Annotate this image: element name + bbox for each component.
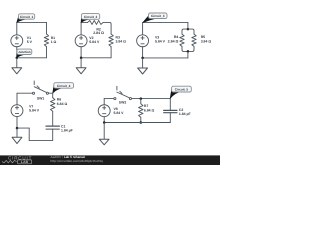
svg-text:1.84 µF: 1.84 µF <box>179 112 191 116</box>
wire bottom bar <box>182 46 194 51</box>
label R4 value <box>168 35 179 43</box>
label Circuit_2 <box>81 14 100 23</box>
svg-text:SW1: SW1 <box>37 97 45 101</box>
svg-text:Circuit_4: Circuit_4 <box>57 84 71 88</box>
voltage source V2 5.84 V <box>75 35 87 47</box>
wire <box>46 22 48 34</box>
ground <box>12 58 22 74</box>
wire <box>143 57 188 59</box>
capacitor C2 <box>164 110 177 112</box>
svg-text:Circuit_5: Circuit_5 <box>175 88 189 92</box>
ground <box>138 58 148 74</box>
svg-text:Circuit_3: Circuit_3 <box>151 14 165 18</box>
label Circuit_4 <box>53 83 74 93</box>
svg-text:5.84 V: 5.84 V <box>114 111 125 115</box>
voltage source V7 5.84 V <box>11 105 23 117</box>
wire <box>187 22 189 29</box>
svg-text:5.84 V: 5.84 V <box>29 108 40 112</box>
wire <box>17 21 47 23</box>
wire <box>81 21 88 23</box>
wire <box>169 99 171 111</box>
svg-text:LAB: LAB <box>21 160 29 164</box>
svg-text:R7: R7 <box>144 104 148 108</box>
ground <box>99 123 109 145</box>
wire <box>52 93 54 98</box>
svg-text:R6: R6 <box>57 98 61 102</box>
wire <box>140 99 142 104</box>
wire <box>104 98 114 100</box>
label R5 value <box>201 35 212 43</box>
node junction dot <box>187 50 190 53</box>
svg-text:Circuit_1: Circuit_1 <box>20 15 34 19</box>
label Junction <box>17 49 32 57</box>
label SW1 <box>37 97 45 101</box>
label V7 value <box>29 105 40 113</box>
resistor R6 <box>51 98 55 112</box>
node junction dot <box>80 57 83 60</box>
label R2 value <box>93 28 104 36</box>
label Circuit_1 <box>17 14 35 22</box>
switch SW1 <box>32 81 48 94</box>
svg-text:6.84 Ω: 6.84 Ω <box>57 102 68 106</box>
svg-text:5.84 V: 5.84 V <box>89 40 100 44</box>
ground <box>76 58 86 74</box>
wire <box>46 47 48 58</box>
resistor R5 <box>192 34 196 46</box>
wire <box>140 117 142 122</box>
wire <box>187 51 189 58</box>
wire <box>104 122 170 124</box>
node junction dot <box>103 121 106 124</box>
node junction dot <box>141 57 144 60</box>
wire <box>142 47 144 58</box>
node junction dot <box>187 28 190 31</box>
svg-text:3.84 Ω: 3.84 Ω <box>201 40 212 44</box>
wire <box>16 117 18 129</box>
wire <box>28 128 30 140</box>
resistor R3 <box>109 34 113 47</box>
label C2 value <box>179 108 191 116</box>
label V3 value <box>155 35 166 43</box>
label R3 value <box>116 35 127 43</box>
label V8 value <box>114 107 125 115</box>
wire <box>103 22 111 34</box>
svg-text:1 Ω: 1 Ω <box>51 40 57 44</box>
voltage source V3 5.84 V <box>137 35 149 47</box>
svg-text:5 V: 5 V <box>27 40 33 44</box>
ground <box>12 128 22 144</box>
node junction dot <box>16 127 19 130</box>
label Circuit_3 <box>143 13 167 23</box>
wire top bar <box>182 29 194 34</box>
wire <box>80 47 82 58</box>
switch SW2 <box>114 86 132 99</box>
wire <box>29 139 53 141</box>
label V2 value <box>89 36 100 44</box>
svg-text:Circuit_2: Circuit_2 <box>84 15 98 19</box>
wire <box>16 22 18 34</box>
node junction dot <box>140 121 143 124</box>
wire <box>169 113 171 123</box>
wire <box>81 57 111 59</box>
label Circuit_5 <box>170 86 191 98</box>
node junction dot <box>140 97 143 100</box>
wire <box>16 93 18 104</box>
wire <box>110 47 112 58</box>
wire <box>16 47 18 58</box>
svg-text:R5: R5 <box>201 35 205 39</box>
footer text <box>50 155 103 163</box>
label V1 value <box>27 36 33 44</box>
wire <box>131 98 170 100</box>
wire <box>48 92 52 94</box>
wire <box>103 99 105 105</box>
wire <box>103 117 105 123</box>
svg-text:6.84 Ω: 6.84 Ω <box>144 108 155 112</box>
CircuitLab logo <box>2 155 32 164</box>
wire <box>17 127 29 129</box>
wire <box>17 57 47 59</box>
wire <box>142 22 144 34</box>
svg-text:5.84 V: 5.84 V <box>155 40 166 44</box>
capacitor C1 <box>46 126 59 129</box>
voltage source V1 5 V <box>11 35 23 47</box>
label R7 value <box>144 104 155 112</box>
resistor R7 <box>139 104 143 118</box>
wire <box>52 111 54 126</box>
wire <box>80 22 82 34</box>
wire <box>17 92 32 94</box>
svg-text:2.84 Ω: 2.84 Ω <box>168 40 179 44</box>
resistor R2 <box>88 20 104 24</box>
label R6 value <box>57 98 68 107</box>
wire <box>52 129 54 140</box>
svg-text:2.84 Ω: 2.84 Ω <box>93 31 104 35</box>
wire <box>143 21 188 23</box>
svg-text:Junction: Junction <box>18 50 31 54</box>
resistor R4 <box>180 34 184 46</box>
voltage source V8 5.84 V <box>98 105 110 117</box>
label R1 value <box>51 36 57 44</box>
resistor R1 <box>44 34 48 47</box>
label C1 value <box>61 124 73 132</box>
svg-text:1.84 µF: 1.84 µF <box>61 129 73 133</box>
node junction dot <box>16 57 19 60</box>
svg-text:SW2: SW2 <box>119 100 127 104</box>
footer bar <box>0 155 220 165</box>
svg-text:R4: R4 <box>174 35 179 39</box>
label SW2 <box>119 100 127 104</box>
svg-text:http://circuitlab.com/c6s9fq3c: http://circuitlab.com/c6s9fq3c7k472q <box>50 159 103 163</box>
svg-text:3.84 Ω: 3.84 Ω <box>116 40 127 44</box>
